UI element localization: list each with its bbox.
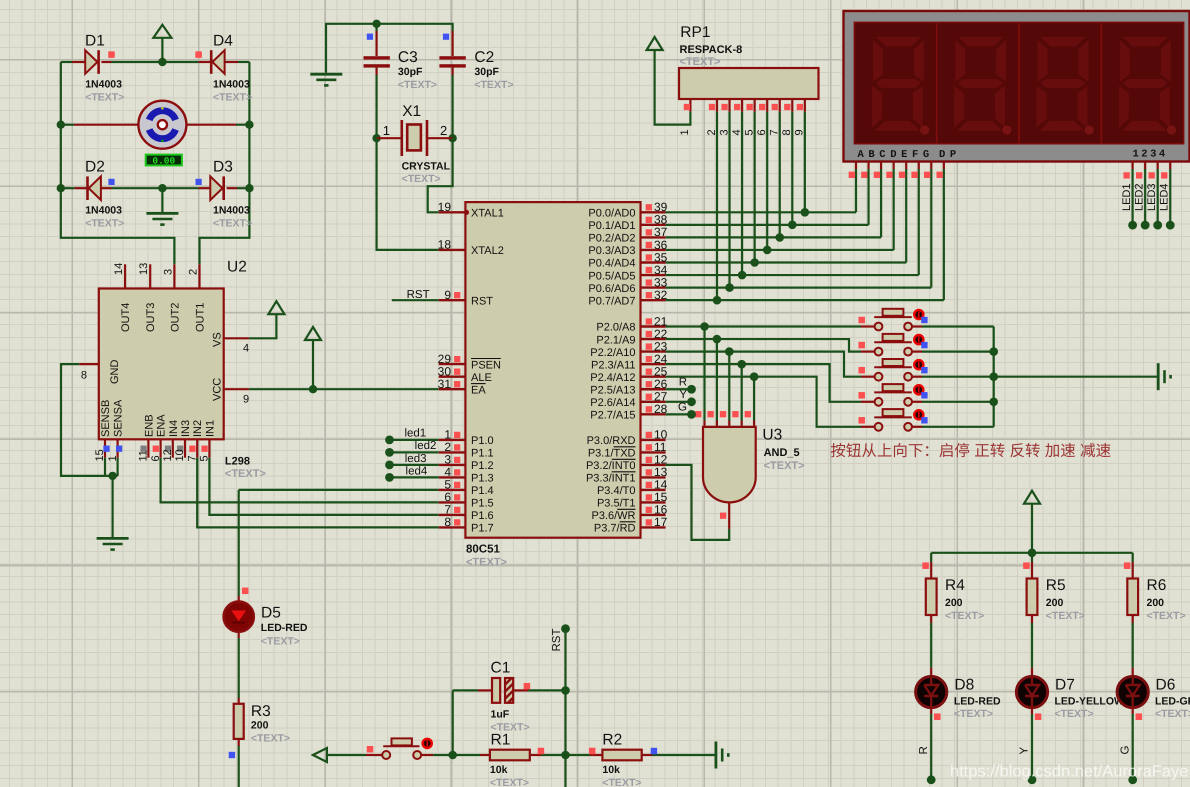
button reset xyxy=(366,754,382,756)
svg-text:P0.1/AD1: P0.1/AD1 xyxy=(588,220,635,232)
svg-text:200: 200 xyxy=(945,597,963,609)
wire cap ground rail xyxy=(326,24,453,73)
svg-text:G: G xyxy=(1119,746,1131,755)
RP1 pin 3 xyxy=(728,99,730,112)
resistor R5 xyxy=(1031,562,1033,579)
U1 pin 4 P1.3 xyxy=(439,476,466,478)
wire R3 down xyxy=(238,746,240,787)
7-segment display 4-digit xyxy=(844,11,1190,162)
U1 pin 8 P1.7 xyxy=(439,526,466,528)
svg-text:9: 9 xyxy=(243,394,249,406)
svg-text:P2.3/A11: P2.3/A11 xyxy=(591,359,635,371)
power terminal (RP1) xyxy=(647,37,663,50)
svg-text:led1: led1 xyxy=(404,428,426,440)
pin square D1 xyxy=(108,51,115,58)
pin square R3 xyxy=(229,752,235,758)
svg-text:OUT1: OUT1 xyxy=(195,303,207,332)
svg-text:12: 12 xyxy=(162,449,174,461)
svg-text:P3.7/RD: P3.7/RD xyxy=(594,523,636,535)
U1 pin 35 P0.4/AD4 xyxy=(641,261,666,263)
wire button1 to rail xyxy=(922,325,994,327)
node Y net terminal xyxy=(666,401,692,403)
resistor R2 xyxy=(590,754,602,756)
svg-text:P3.6/WR: P3.6/WR xyxy=(591,510,635,522)
wire RST to R2 xyxy=(566,754,591,756)
svg-text:18: 18 xyxy=(438,238,452,252)
power terminal (U2 VS) xyxy=(249,314,277,338)
U1 pin 38 P0.1/AD1 xyxy=(641,224,666,226)
pin square D2 xyxy=(108,179,114,185)
wire X1 pin2 to XTAL1 xyxy=(428,138,453,212)
svg-text:L298: L298 xyxy=(225,455,250,467)
pin square R4 xyxy=(922,562,929,569)
ground (R2) xyxy=(715,742,718,769)
pin square C3 xyxy=(367,34,373,40)
U2 pin 14 OUT4 xyxy=(124,264,126,288)
U1 pin 28 P2.7/A15 xyxy=(641,413,666,415)
U2 pin 9 VCC xyxy=(224,388,249,390)
power terminal (reset button) xyxy=(313,748,327,762)
U1 pin 34 P0.5/AD5 xyxy=(641,274,666,276)
svg-text:GND: GND xyxy=(109,360,121,385)
U1 pin 2 P1.1 xyxy=(439,451,466,453)
RP1 pin 2 xyxy=(716,99,718,112)
svg-text:C3: C3 xyxy=(398,49,418,66)
svg-text:U2: U2 xyxy=(227,259,247,276)
svg-text:<TEXT>: <TEXT> xyxy=(602,777,641,787)
wire VCC to EA xyxy=(249,388,439,390)
pin square C1 xyxy=(524,683,531,690)
led D8 xyxy=(930,668,932,677)
node R terminal xyxy=(927,775,936,784)
wire net P0.0 bus xyxy=(666,211,856,213)
chip U2 body xyxy=(99,289,224,440)
svg-text:P3.5/T1: P3.5/T1 xyxy=(597,498,636,510)
svg-text:<TEXT>: <TEXT> xyxy=(1155,708,1190,720)
diode D3 xyxy=(162,187,198,189)
svg-text:P1.0: P1.0 xyxy=(471,435,494,447)
svg-text:G: G xyxy=(678,402,687,414)
motor leads xyxy=(61,124,74,126)
node led3 xyxy=(385,461,394,470)
svg-text:OUT3: OUT3 xyxy=(145,303,157,332)
pin square C2 xyxy=(443,34,449,40)
diode D1 xyxy=(61,61,72,63)
svg-text:1: 1 xyxy=(383,123,390,138)
led D5 xyxy=(238,596,240,602)
svg-text:<TEXT>: <TEXT> xyxy=(474,79,513,91)
U1 pin 14 P3.4/T0 xyxy=(641,489,666,491)
wire ENA to P1.5 xyxy=(161,458,439,503)
pin square R6 xyxy=(1124,562,1131,569)
U1 pin 29 PSEN xyxy=(439,363,466,365)
svg-text:SENSB: SENSB xyxy=(100,400,112,437)
power terminal (U2 VCC) xyxy=(305,327,321,340)
U1 pin 1 P1.0 xyxy=(439,439,466,441)
U2 pin 10 IN3 xyxy=(184,439,186,457)
svg-text:VS: VS xyxy=(212,332,224,347)
U2 pin 7 IN2 xyxy=(196,439,198,457)
pin square D6 xyxy=(1136,713,1143,720)
U1 pin 6 P1.5 xyxy=(439,501,466,503)
U2 pin 11 ENB xyxy=(147,439,149,457)
node VCC junction xyxy=(309,385,317,393)
svg-text:13: 13 xyxy=(138,263,150,275)
button SW1 xyxy=(861,325,875,327)
svg-text:30pF: 30pF xyxy=(398,66,423,78)
svg-text:P2.4/A12: P2.4/A12 xyxy=(590,372,635,384)
node D3 right xyxy=(245,184,253,192)
node crystal pin2 xyxy=(448,134,456,142)
svg-text:200: 200 xyxy=(251,719,269,731)
U1 pin 18 XTAL2 xyxy=(439,249,466,251)
node G net terminal xyxy=(666,413,692,415)
wire to R1 xyxy=(453,754,480,756)
wire button5 to rail xyxy=(922,426,994,428)
svg-text:P0.2/AD2: P0.2/AD2 xyxy=(588,233,635,245)
wire net P0.7 bus xyxy=(666,299,944,301)
RP1 pin 9 xyxy=(804,99,806,112)
svg-text:PSEN: PSEN xyxy=(471,359,501,371)
U1 pin 33 P0.6/AD6 xyxy=(641,286,666,288)
display digit pin 3 / LED3 terminal xyxy=(1157,162,1159,170)
pin square D5 xyxy=(242,588,249,595)
U1 pin 11 P3.1/TXD xyxy=(641,451,666,453)
wire rail to ground xyxy=(994,376,1158,378)
svg-text:P1.2: P1.2 xyxy=(471,460,494,472)
motor M1 body xyxy=(138,101,186,149)
svg-text:P3.1/TXD: P3.1/TXD xyxy=(588,448,636,460)
wire AND input 1 xyxy=(703,327,705,421)
RP1 pin 8 xyxy=(791,99,793,112)
node motor left xyxy=(57,121,65,129)
svg-text:P1.3: P1.3 xyxy=(471,473,494,485)
U1 pin 23 P2.2/A10 xyxy=(641,350,666,352)
svg-text:P2.2/A10: P2.2/A10 xyxy=(590,347,635,359)
pin square D7 xyxy=(1035,713,1042,720)
wire SENSB down xyxy=(104,458,106,476)
svg-text:LED-GREEN: LED-GREEN xyxy=(1155,695,1190,707)
wire D5 to R3 xyxy=(238,638,240,698)
wire net P0.4 bus xyxy=(666,261,907,263)
svg-text:P0.0/AD0: P0.0/AD0 xyxy=(588,208,635,220)
U1 pin 39 P0.0/AD0 xyxy=(641,211,666,213)
capacitor C2 xyxy=(452,31,454,56)
U1 pin 27 P2.6/A14 xyxy=(641,401,666,403)
svg-text:<TEXT>: <TEXT> xyxy=(398,79,437,91)
wire RST vertical xyxy=(564,629,566,787)
svg-text:1N4003: 1N4003 xyxy=(85,79,122,91)
svg-text:19: 19 xyxy=(438,200,452,214)
display digit pin 1 / LED1 terminal xyxy=(1131,162,1133,170)
U1 pin 32 P0.7/AD7 xyxy=(641,299,666,301)
svg-text:RESPACK-8: RESPACK-8 xyxy=(680,44,743,56)
svg-text:<TEXT>: <TEXT> xyxy=(1147,610,1186,622)
node C1/RST junction xyxy=(561,686,570,695)
ground (U2 sense) xyxy=(97,537,129,540)
svg-text:R2: R2 xyxy=(602,732,622,749)
wire net P0.1 bus xyxy=(666,224,869,226)
svg-text:P3.4/T0: P3.4/T0 xyxy=(597,485,636,497)
wire H-bridge left rail xyxy=(61,62,175,264)
pin square R5 xyxy=(1023,562,1030,569)
svg-text:LED-RED: LED-RED xyxy=(954,695,1001,707)
U2 pin 12 IN4 xyxy=(172,439,174,457)
svg-text:<TEXT>: <TEXT> xyxy=(466,557,507,569)
svg-text:<TEXT>: <TEXT> xyxy=(490,777,529,787)
node rail junction xyxy=(989,372,998,381)
node D2 left xyxy=(57,184,65,192)
U2 pin 6 ENA xyxy=(160,439,162,457)
U1 pin 10 P3.0/RXD xyxy=(641,439,666,441)
node H-bridge top xyxy=(158,58,166,66)
svg-text:C1: C1 xyxy=(491,659,511,676)
node RST top terminal xyxy=(561,624,570,633)
svg-text:11: 11 xyxy=(138,450,150,461)
ground (caps) xyxy=(310,73,342,76)
svg-text:D2: D2 xyxy=(85,159,105,176)
node led2 xyxy=(385,448,394,457)
svg-text:RST: RST xyxy=(407,289,430,301)
svg-text:led2: led2 xyxy=(415,440,437,452)
power terminal VCC (H-bridge top) xyxy=(153,25,171,38)
U2 pin 5 IN1 xyxy=(208,439,210,457)
wire U2 GND to sense xyxy=(61,364,118,476)
U1 pin 12 P3.2/INT0 xyxy=(641,464,666,466)
U1 pin 13 P3.3/INT1 xyxy=(641,476,666,478)
svg-text:C2: C2 xyxy=(474,49,494,66)
svg-text:R: R xyxy=(679,376,687,388)
resistor R3 xyxy=(238,698,240,704)
svg-text:31: 31 xyxy=(438,377,452,391)
svg-text:P0.7/AD7: P0.7/AD7 xyxy=(588,295,635,307)
wire net P0.5 bus xyxy=(666,274,919,276)
node reset junction xyxy=(448,751,457,760)
svg-text:D8: D8 xyxy=(954,676,974,693)
wire IN2 to P1.7 xyxy=(197,458,439,528)
svg-text:10k: 10k xyxy=(490,764,508,776)
svg-text:<TEXT>: <TEXT> xyxy=(213,217,252,229)
svg-text:XTAL2: XTAL2 xyxy=(471,245,504,257)
svg-text:P0.4/AD4: P0.4/AD4 xyxy=(588,258,635,270)
U2 pin 4 VS xyxy=(224,337,249,339)
svg-text:<TEXT>: <TEXT> xyxy=(85,91,124,103)
button SW3 xyxy=(861,376,875,378)
svg-text:ENA: ENA xyxy=(156,414,168,437)
svg-text:AND_5: AND_5 xyxy=(764,447,800,459)
svg-text:按钮从上向下：启停 正转 反转 加速 减速: 按钮从上向下：启停 正转 反转 加速 减速 xyxy=(830,442,1111,460)
svg-text:DP: DP xyxy=(939,149,961,161)
svg-text:10: 10 xyxy=(174,449,186,461)
svg-text:R: R xyxy=(918,746,930,754)
svg-text:P0.3/AD3: P0.3/AD3 xyxy=(588,245,635,257)
wire net P2.4 to button5 xyxy=(666,377,861,427)
svg-text:XTAL1: XTAL1 xyxy=(471,208,504,220)
wire net P0.6 bus xyxy=(666,287,932,289)
wire C1 left down xyxy=(452,690,454,755)
wire AND input 5 xyxy=(753,377,755,421)
svg-text:R1: R1 xyxy=(491,732,511,749)
svg-text:ALE: ALE xyxy=(471,372,492,384)
motor rpm meter 0.00 xyxy=(146,155,182,166)
node R net terminal xyxy=(666,388,692,390)
wire SENSA down xyxy=(116,458,118,476)
and-gate U3 body xyxy=(703,427,756,503)
svg-text:1234: 1234 xyxy=(1133,149,1168,161)
svg-text:P3.3/INT1: P3.3/INT1 xyxy=(586,473,636,485)
RP1 pin 6 xyxy=(766,99,768,112)
display digit pin 2 / LED2 terminal xyxy=(1144,162,1146,170)
svg-text:1uF: 1uF xyxy=(491,708,510,720)
U1 pin 5 P1.4 xyxy=(439,489,466,491)
wire P1.4 net xyxy=(239,489,439,491)
svg-text:CRYSTAL: CRYSTAL xyxy=(402,161,451,173)
button SW2 xyxy=(861,351,875,353)
RP1 pin 7 xyxy=(779,99,781,112)
svg-text:P2.1/A9: P2.1/A9 xyxy=(596,334,635,346)
svg-text:17: 17 xyxy=(654,515,668,529)
svg-text:ENB: ENB xyxy=(143,414,155,437)
svg-text:P1.6: P1.6 xyxy=(471,510,494,522)
svg-text:1: 1 xyxy=(679,129,691,135)
wire net P0.2 bus xyxy=(666,236,882,238)
wire button4 to rail xyxy=(922,401,994,403)
svg-text:IN1: IN1 xyxy=(204,420,216,437)
svg-text:<TEXT>: <TEXT> xyxy=(225,468,266,480)
wire net P2.1 to button2 xyxy=(666,339,861,352)
svg-text:P2.6/A14: P2.6/A14 xyxy=(590,397,635,409)
svg-text:0.00: 0.00 xyxy=(152,155,175,166)
svg-text:1N4003: 1N4003 xyxy=(213,79,250,91)
node sense junction xyxy=(108,472,116,480)
wire net P2.3 to button4 xyxy=(666,364,861,402)
svg-text:200: 200 xyxy=(1147,597,1165,609)
ground (H-bridge) xyxy=(161,188,163,213)
resistor R6 xyxy=(1132,562,1134,579)
led D6 xyxy=(1132,668,1134,677)
svg-text:U3: U3 xyxy=(762,427,782,444)
wire RST terminal xyxy=(392,299,439,301)
svg-text:<TEXT>: <TEXT> xyxy=(680,56,721,68)
svg-text:<TEXT>: <TEXT> xyxy=(251,733,290,745)
svg-text:https://blog.csdn.net/AuroraFa: https://blog.csdn.net/AuroraFaye xyxy=(950,763,1188,781)
node motor right xyxy=(245,121,253,129)
pin square R1 xyxy=(538,748,545,755)
node rail junction xyxy=(989,398,998,407)
led D7 xyxy=(1031,668,1033,677)
power terminal (LED rail) xyxy=(1024,491,1040,504)
svg-text:2: 2 xyxy=(188,269,200,275)
U1 pin 31 EA xyxy=(439,388,466,390)
svg-text:10k: 10k xyxy=(602,764,620,776)
wire reset button to node xyxy=(433,754,453,756)
svg-text:<TEXT>: <TEXT> xyxy=(764,460,805,472)
capacitor C1 xyxy=(453,689,478,691)
U1 pin 22 P2.1/A9 xyxy=(641,338,666,340)
svg-text:R6: R6 xyxy=(1147,577,1167,594)
U1 pin 21 P2.0/A8 xyxy=(641,325,666,327)
svg-text:2: 2 xyxy=(440,123,447,138)
svg-text:LED4: LED4 xyxy=(1158,183,1170,211)
svg-text:EA: EA xyxy=(471,384,486,396)
wire net P0.3 bus xyxy=(666,249,894,251)
svg-text:D4: D4 xyxy=(213,33,233,50)
wire H-bridge right rail xyxy=(200,62,250,264)
svg-text:9: 9 xyxy=(444,288,451,302)
button SW4 xyxy=(861,401,875,403)
pin square reset button xyxy=(367,746,374,753)
svg-text:P1.4: P1.4 xyxy=(471,485,494,497)
ground (buttons) xyxy=(1157,363,1160,390)
wire AND input 2 xyxy=(716,339,718,420)
resistor R1 xyxy=(480,754,490,756)
U1 pin 17 P3.7/RD xyxy=(641,526,666,528)
svg-text:led4: led4 xyxy=(406,465,428,477)
wire LED rail xyxy=(931,552,1132,554)
svg-text:D7: D7 xyxy=(1055,676,1075,693)
svg-text:<TEXT>: <TEXT> xyxy=(954,708,993,720)
svg-text:<TEXT>: <TEXT> xyxy=(261,636,300,648)
svg-text:P2.5/A13: P2.5/A13 xyxy=(590,384,635,396)
pin square R2 right xyxy=(651,748,657,754)
svg-text:<TEXT>: <TEXT> xyxy=(1055,708,1094,720)
svg-text:R4: R4 xyxy=(945,577,965,594)
svg-text:P0.6/AD6: P0.6/AD6 xyxy=(588,283,635,295)
node H-bridge bottom xyxy=(158,184,166,192)
wire AND input 3 xyxy=(728,352,730,421)
svg-text:<TEXT>: <TEXT> xyxy=(1046,610,1085,622)
svg-text:<TEXT>: <TEXT> xyxy=(945,610,984,622)
node Y terminal xyxy=(1028,775,1037,784)
svg-text:LED-YELLOW: LED-YELLOW xyxy=(1055,695,1124,707)
svg-text:<TEXT>: <TEXT> xyxy=(85,217,124,229)
RP1 pin 5 xyxy=(754,99,756,112)
svg-text:P0.5/AD5: P0.5/AD5 xyxy=(588,270,635,282)
display digit pin 4 / LED4 terminal xyxy=(1169,162,1171,170)
resistor R4 xyxy=(930,562,932,579)
capacitor C3 xyxy=(376,24,378,31)
U1 pin 37 P0.2/AD2 xyxy=(641,236,666,238)
RP1 pin 1 xyxy=(689,99,691,112)
svg-text:IN4: IN4 xyxy=(168,420,180,437)
wire X1 pin1 to XTAL2 xyxy=(377,138,439,250)
button SW5 xyxy=(861,426,875,428)
wire button3 to rail xyxy=(922,376,994,378)
U1 pin 15 P3.5/T1 xyxy=(641,501,666,503)
svg-text:200: 200 xyxy=(1046,597,1064,609)
svg-text:P1.7: P1.7 xyxy=(471,523,494,535)
pin square D3 xyxy=(196,179,202,185)
node led1 xyxy=(385,436,394,445)
svg-text:D1: D1 xyxy=(85,33,105,50)
node R1/RST junction xyxy=(561,751,570,760)
svg-text:R3: R3 xyxy=(251,703,271,720)
node rail junction xyxy=(989,347,998,356)
svg-text:P2.7/A15: P2.7/A15 xyxy=(590,410,635,422)
svg-text:RP1: RP1 xyxy=(680,24,710,41)
svg-text:P1.5: P1.5 xyxy=(471,498,494,510)
svg-text:LED2: LED2 xyxy=(1133,183,1145,211)
node LED rail center xyxy=(1028,549,1037,558)
svg-text:LED3: LED3 xyxy=(1146,183,1158,211)
svg-text:8: 8 xyxy=(81,369,87,381)
wire net P2.0 to button1 xyxy=(666,325,861,327)
svg-text:led3: led3 xyxy=(405,453,427,465)
svg-text:4: 4 xyxy=(243,343,249,355)
svg-text:80C51: 80C51 xyxy=(466,544,500,556)
svg-text:8: 8 xyxy=(444,515,451,529)
pin dot XTAL1 xyxy=(464,210,469,215)
